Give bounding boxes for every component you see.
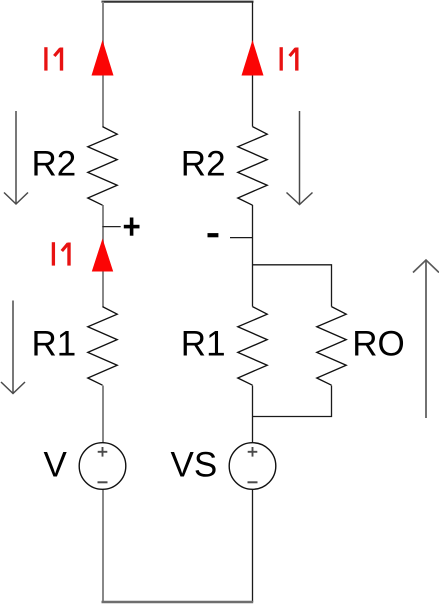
annotation up arrow (right of RO) xyxy=(413,260,439,418)
annotation down arrow (right of R2 right) xyxy=(287,111,313,205)
svg-text:RO: RO xyxy=(352,325,405,364)
V source - mark xyxy=(98,481,108,483)
wire right branch upper xyxy=(252,2,254,127)
wire bottom horizontal xyxy=(102,601,254,604)
resistor R2 (left) xyxy=(88,127,117,206)
wire top horizontal xyxy=(102,1,254,3)
svg-text:R2: R2 xyxy=(181,145,226,184)
wire right branch lower xyxy=(252,386,254,444)
node tick (+ terminal, left branch) xyxy=(103,226,121,228)
voltage source V xyxy=(79,443,126,490)
wire left branch middle xyxy=(102,205,104,307)
current arrow I1 (top left, red triangle) xyxy=(92,40,114,76)
annotation down arrow (left of R2 left) xyxy=(4,111,28,204)
node - sign (right branch) xyxy=(208,233,219,237)
wire RO branch bottom xyxy=(253,386,332,417)
VS source - mark xyxy=(248,481,258,483)
node + sign (left branch) xyxy=(124,218,140,236)
annotation down arrow (left of R1 left) xyxy=(1,301,25,394)
VS source + mark xyxy=(248,447,258,457)
wire left branch lower xyxy=(102,386,104,444)
svg-text:V: V xyxy=(44,445,68,484)
wire left branch upper xyxy=(102,2,104,127)
node tick (- terminal, right branch) xyxy=(230,237,253,239)
label I1 (mid left) xyxy=(53,242,69,265)
voltage source VS xyxy=(229,443,276,490)
resistor R2 (right) xyxy=(238,127,267,206)
resistor R1 (right) xyxy=(238,307,267,386)
current arrow I1 (mid left, red triangle) xyxy=(92,239,113,272)
V source + mark xyxy=(98,447,108,457)
wire left branch bottom stub xyxy=(102,489,104,602)
wire right branch middle xyxy=(252,205,254,307)
wire RO branch top xyxy=(253,265,332,307)
svg-text:R1: R1 xyxy=(181,325,226,364)
label I1 (top right) xyxy=(281,47,297,70)
resistor RO xyxy=(317,307,346,386)
wire right branch bottom stub xyxy=(252,489,254,602)
current arrow I1 (top right, red triangle) xyxy=(242,40,264,76)
svg-text:R2: R2 xyxy=(32,145,77,184)
svg-text:R1: R1 xyxy=(32,325,77,364)
label I1 (top left) xyxy=(46,47,62,70)
svg-text:VS: VS xyxy=(171,445,218,484)
resistor R1 (left) xyxy=(88,307,117,386)
